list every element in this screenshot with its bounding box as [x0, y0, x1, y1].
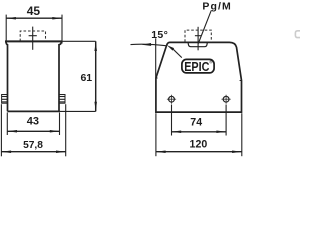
dim 57,8 line	[1, 151, 65, 153]
transition tick left	[156, 77, 158, 79]
dim 45 arrow right	[52, 17, 62, 20]
dim 57,8 extension right	[65, 104, 67, 156]
dim 43 extension left	[6, 113, 8, 136]
right peg (hatched stud)	[59, 95, 65, 104]
dim 74 arrow right	[216, 131, 226, 134]
bottom extension to 61 dim	[60, 110, 96, 112]
body outline	[156, 42, 242, 112]
screw hole left	[167, 95, 176, 104]
dim 45 extension line right	[61, 15, 63, 44]
svg-text:EPIC: EPIC	[184, 60, 209, 74]
dim 120 extension right	[241, 113, 243, 156]
screw hole right	[222, 95, 231, 104]
dim 45 arrow left	[6, 17, 16, 20]
15 deg arrow at sloped edge	[167, 45, 174, 50]
dim 57,8 arrow right	[56, 150, 66, 153]
left peg (hatched stud)	[2, 95, 8, 104]
15 deg leader tail	[173, 49, 182, 57]
hidden entry rect (dashed)	[185, 30, 211, 42]
dim 74 line	[172, 131, 227, 133]
svg-text:Pg/M: Pg/M	[202, 0, 231, 12]
centerline vertical	[32, 27, 34, 50]
dim 43 arrow right	[50, 130, 60, 133]
top face line	[5, 40, 62, 42]
dim 61 arrow up	[94, 41, 97, 51]
centerline	[197, 27, 199, 51]
15 deg arrow at reference line	[142, 43, 151, 46]
hidden cable-entry rect (dashed)	[20, 31, 45, 41]
dim 74 arrow left	[172, 131, 182, 134]
transition tick right	[240, 80, 242, 82]
top extension to 61 dim	[62, 40, 96, 42]
centerline horizontal tick	[29, 35, 37, 37]
dim 43 line	[7, 130, 59, 132]
dim 45 extension line left	[5, 15, 7, 44]
dim 61 vertical line	[95, 41, 97, 111]
right wall with corner hook	[59, 42, 62, 112]
dim 120 line	[156, 151, 242, 153]
dim 74 extension right	[225, 105, 227, 136]
svg-text:57,8: 57,8	[23, 140, 43, 151]
dim 120 extension left	[155, 113, 157, 156]
15 deg reference line	[155, 38, 157, 77]
svg-text:61: 61	[80, 72, 92, 84]
dim 61 arrow down	[94, 102, 97, 112]
dim 57,8 arrow left	[1, 150, 11, 153]
svg-text:120: 120	[190, 138, 208, 150]
svg-text:15°: 15°	[151, 29, 168, 41]
dim 74 extension left	[171, 105, 173, 136]
dim 120 arrow left	[156, 150, 166, 153]
svg-text:74: 74	[190, 117, 202, 129]
dim 43 extension right	[59, 113, 61, 136]
15 deg arc swoosh	[131, 44, 166, 45]
svg-text:45: 45	[27, 4, 41, 18]
dim 45 line	[6, 17, 62, 19]
left wall with corner hook	[6, 42, 8, 112]
dim 57,8 extension left	[0, 104, 2, 156]
svg-text:43: 43	[27, 116, 39, 128]
bottom face line	[7, 110, 59, 112]
Pg/M leader line	[198, 11, 211, 44]
centerline horizontal tick	[195, 35, 201, 37]
dim 43 arrow left	[7, 130, 17, 133]
faint cropped mark at right edge	[295, 31, 300, 38]
top notch	[188, 42, 207, 46]
dim 120 arrow right	[232, 150, 242, 153]
EPIC logo	[182, 59, 214, 74]
